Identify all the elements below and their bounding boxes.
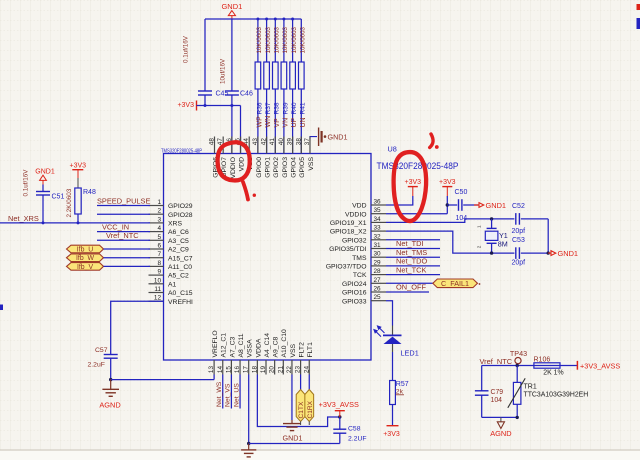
svg-text:21: 21 <box>277 366 284 374</box>
resistor R57 2k <box>390 381 409 405</box>
svg-text:A9_C8: A9_C8 <box>273 336 280 357</box>
junction X1 / crystal <box>490 217 493 220</box>
wire Vref_NTC node <box>482 365 578 367</box>
svg-text:Net_TCK: Net_TCK <box>396 265 426 274</box>
svg-text:GPIO16: GPIO16 <box>342 290 367 297</box>
svg-text:26: 26 <box>374 286 382 293</box>
svg-text:30: 30 <box>374 251 382 258</box>
svg-text:C52: C52 <box>512 203 525 210</box>
wire pin 22 (VSS) to GND1 earth <box>291 375 293 421</box>
port flag Ifb_U (pin 6) <box>67 245 151 253</box>
wire bottom ground to C58 <box>249 443 340 445</box>
capacitor C51 0.1uf/16V <box>23 169 65 223</box>
svg-text:C53: C53 <box>512 237 525 244</box>
svg-text:104: 104 <box>491 397 503 404</box>
junction Net_XRS / R48 <box>77 221 80 224</box>
svg-text:VDDIO: VDDIO <box>230 157 237 179</box>
port flag C_FAIL1 (pin 27) <box>386 279 480 288</box>
svg-text:GPIO32: GPIO32 <box>342 237 367 244</box>
port flag C1TX (vertical) <box>296 390 305 426</box>
svg-text:8M: 8M <box>498 239 508 248</box>
wire TR1 bottom / C79 bottom <box>482 416 518 418</box>
annotation red circle around +3V3 <box>394 152 427 221</box>
svg-text:25: 25 <box>374 294 382 301</box>
svg-text:R57: R57 <box>396 381 409 388</box>
svg-text:GPIO5: GPIO5 <box>299 157 306 178</box>
svg-text:2K 1%: 2K 1% <box>543 370 563 377</box>
svg-text:40: 40 <box>278 138 285 146</box>
IC U8 TMS320F280025-48P body <box>164 154 372 361</box>
net label VCC_IN <box>102 222 129 231</box>
svg-text:17: 17 <box>243 366 250 374</box>
svg-text:3: 3 <box>157 216 161 223</box>
svg-text:GPIO2: GPIO2 <box>273 157 280 178</box>
svg-text:20: 20 <box>269 366 276 374</box>
svg-text:C46: C46 <box>240 91 253 98</box>
svg-text:U8: U8 <box>388 145 397 154</box>
svg-text:20pf: 20pf <box>512 259 526 266</box>
pin 8 (A11_C0) left <box>149 260 193 271</box>
svg-text:10uf/16V: 10uf/16V <box>220 58 227 84</box>
svg-text:GND1: GND1 <box>486 201 507 210</box>
svg-text:18: 18 <box>251 366 258 374</box>
svg-text:14: 14 <box>217 366 224 374</box>
junction GND rail / R40 <box>291 18 294 21</box>
svg-text:41: 41 <box>269 138 276 146</box>
pin 38 (GPIO5) top <box>295 137 306 178</box>
svg-text:R106: R106 <box>534 356 551 363</box>
net label Net_TMS <box>386 248 440 257</box>
pin 30 (TMS) right <box>352 251 386 262</box>
svg-text:C50: C50 <box>455 189 468 196</box>
wire pin 34 (GPIO19_X1) to crystal <box>386 219 548 223</box>
svg-text:9: 9 <box>157 269 161 276</box>
svg-text:C1RX: C1RX <box>307 400 314 418</box>
power port GND1 (bar, at pin 37 VSS) <box>310 128 347 147</box>
svg-text:Vref_NTC: Vref_NTC <box>480 357 513 366</box>
svg-text:VREFHI: VREFHI <box>168 299 193 306</box>
svg-text:28: 28 <box>374 268 382 275</box>
svg-text:A11_C0: A11_C0 <box>168 264 192 271</box>
svg-text:GND1: GND1 <box>283 434 303 443</box>
svg-text:22: 22 <box>286 366 293 374</box>
resistor R40 10K/0603 (net UP) <box>290 19 298 154</box>
svg-text:FLT1: FLT1 <box>307 342 314 358</box>
pin 39 (GPIO4) top <box>287 137 298 178</box>
svg-text:TMS320F280025-48P: TMS320F280025-48P <box>161 148 203 154</box>
wire pin 32 (GPIO32) <box>386 239 440 241</box>
svg-text:XRS: XRS <box>168 221 182 228</box>
ground AGND (earth, left) <box>99 379 120 409</box>
svg-text:GPIO4: GPIO4 <box>291 157 298 178</box>
svg-text:Net_VS: Net_VS <box>225 383 232 407</box>
svg-text:GND1: GND1 <box>35 169 55 176</box>
svg-text:GPIO3: GPIO3 <box>282 157 289 178</box>
annotation red J mark <box>430 134 439 149</box>
svg-text:C_FAIL1: C_FAIL1 <box>441 279 469 288</box>
svg-text:A8_C11: A8_C11 <box>238 333 245 357</box>
svg-text:GND1: GND1 <box>558 249 579 258</box>
svg-text:GPIO18_X2: GPIO18_X2 <box>330 229 367 236</box>
svg-text:37: 37 <box>304 138 311 146</box>
pin 25 (GPIO33) right <box>342 294 386 305</box>
resistor R39 10K/0603 (net VN) <box>281 19 289 154</box>
capacitor C45 0.1uf/16V <box>183 19 229 106</box>
pin 34 (GPIO19_X1) right <box>330 216 386 227</box>
svg-text:2: 2 <box>477 245 482 248</box>
net label Vref_NTC (right) <box>480 357 513 366</box>
pin 43 (GPIO0) top <box>252 137 263 178</box>
svg-text:A3_C5: A3_C5 <box>168 238 189 245</box>
svg-text:VDDIO: VDDIO <box>345 211 367 218</box>
test point TP43 <box>510 349 527 364</box>
power port +3V3 (left) <box>70 162 87 178</box>
power port +3V3 (decoupling rail) <box>177 101 196 111</box>
port flag Ifb_W (pin 7) <box>67 254 151 262</box>
port flag C1RX (vertical) <box>305 390 314 426</box>
svg-text:6: 6 <box>157 243 161 250</box>
svg-text:48: 48 <box>209 138 216 146</box>
net label SPEED_PULSE <box>97 197 150 206</box>
pin 35 (VDDIO) right <box>345 207 386 218</box>
pin 10 (A1) left <box>149 277 177 288</box>
svg-text:A0_C15: A0_C15 <box>168 290 193 297</box>
net label ON_OFF (pin 26) <box>386 283 429 292</box>
capacitor C79 104 <box>475 366 503 418</box>
svg-text:8: 8 <box>157 260 161 267</box>
pin 23 (FLT2) bottom <box>295 342 306 375</box>
power port +3V3 (pin 36) - circled in red <box>405 179 422 196</box>
crystal Y1 8M <box>477 219 508 253</box>
net label Net_US on pin 16 <box>233 375 240 409</box>
pin 33 (GPIO18_X2) right <box>330 225 386 236</box>
clipped wire fragment (left edge) <box>0 305 3 311</box>
pin 1 (GPIO29) left <box>149 199 193 210</box>
pin 4 (A6_C6) left <box>149 225 190 236</box>
wire pin 36 (VDD) to +3V3 <box>386 196 413 205</box>
svg-text:0.1uf/16V: 0.1uf/16V <box>23 169 30 197</box>
IC type label TMS320F280025-48P (large) <box>377 161 459 171</box>
svg-text:TMS320F280025-48P: TMS320F280025-48P <box>377 161 459 171</box>
svg-text:VDD: VDD <box>238 157 245 171</box>
svg-text:23: 23 <box>295 366 302 374</box>
svg-text:2.2uF: 2.2uF <box>88 362 105 369</box>
pin 32 (GPIO32) right <box>342 233 386 244</box>
pin 9 (A5_C2) left <box>149 269 190 280</box>
svg-text:Net_TDO: Net_TDO <box>396 257 427 266</box>
svg-text:R40: R40 <box>291 102 298 114</box>
wire LED1 to R57 <box>392 344 394 381</box>
svg-text:C57: C57 <box>95 347 108 354</box>
junction +3V3_AVSS node <box>338 415 341 418</box>
power port GND1 (top) <box>221 2 242 19</box>
svg-text:VREFLO: VREFLO <box>212 330 219 357</box>
pin 19 (A4_C14) bottom <box>260 333 271 375</box>
svg-text:A15_C7: A15_C7 <box>168 255 193 262</box>
power port +3V3_AVSS (right) <box>577 361 620 371</box>
svg-text:GPIO33: GPIO33 <box>342 298 367 305</box>
svg-text:VN: VN <box>283 118 290 128</box>
net label Net_TDO <box>386 257 440 266</box>
svg-text:WN: WN <box>265 116 272 128</box>
svg-text:VDD: VDD <box>352 203 366 210</box>
junction GND rail / R38 <box>274 18 277 21</box>
svg-text:A2_C9: A2_C9 <box>168 247 189 254</box>
svg-text:TP43: TP43 <box>510 349 527 358</box>
svg-text:10K/0603: 10K/0603 <box>300 26 307 53</box>
pin 24 (FLT1) bottom <box>303 342 314 375</box>
svg-text:Net_XRS: Net_XRS <box>8 214 39 223</box>
wire Vref_NTC to pin 5 <box>97 239 150 241</box>
svg-text:39: 39 <box>287 138 294 146</box>
resistor R106 2K 1% <box>534 356 564 376</box>
resistor R37 10K/0603 (net WN) <box>264 19 272 154</box>
pin 46 (VDDIO) top <box>226 137 237 179</box>
svg-text:R38: R38 <box>274 102 281 114</box>
svg-text:Net_WS: Net_WS <box>216 381 223 407</box>
svg-text:WP: WP <box>257 116 264 128</box>
svg-text:GPIO1: GPIO1 <box>264 157 271 178</box>
wire SPEED_PULSE to pin 1 <box>97 205 150 207</box>
pin 14 (A12_C1) bottom <box>217 333 228 375</box>
IC type label (small, top-left) <box>161 148 203 154</box>
pin 11 (A0_C15) left <box>149 286 193 297</box>
pin 45 (VDD) top <box>235 137 246 172</box>
svg-text:UN: UN <box>300 117 307 127</box>
power port GND1 (arrow, at C50) <box>474 201 506 210</box>
wire R57 to +3V3 <box>392 405 394 426</box>
svg-text:GPIO29: GPIO29 <box>168 203 193 210</box>
wire pin 12 (VREFHI) to C57 <box>111 301 164 354</box>
svg-text:FLT2: FLT2 <box>299 342 306 358</box>
svg-text:13: 13 <box>208 366 215 374</box>
wire pin 17 (VSSA) to bottom ground <box>248 375 250 444</box>
svg-text:2: 2 <box>157 208 161 215</box>
svg-text:GPIO28: GPIO28 <box>168 212 193 219</box>
svg-text:A10_C10: A10_C10 <box>281 329 288 358</box>
svg-text:33: 33 <box>374 225 382 232</box>
net label Net_VS on pin 15 <box>225 375 232 409</box>
pin 2 (GPIO28) left <box>149 208 193 219</box>
capacitor C53 20pf <box>512 237 526 266</box>
svg-text:Ifb_U: Ifb_U <box>77 247 93 254</box>
svg-text:VCC_IN: VCC_IN <box>102 222 129 231</box>
pin 41 (GPIO2) top <box>269 137 280 178</box>
capacitor C50 104 <box>447 189 478 222</box>
pin 27 (GPIO24) right <box>342 277 386 288</box>
pin 29 (GPIO37/TDO) right <box>326 259 386 270</box>
svg-text:+3V3_AVSS: +3V3_AVSS <box>319 400 359 409</box>
net label Net_TCK <box>386 265 440 274</box>
power port +3V3_AVSS (middle) <box>319 400 359 417</box>
wire +3V3 to pin 46 (VDDIO) <box>231 106 233 154</box>
svg-text:GPIO19_X1: GPIO19_X1 <box>330 220 367 227</box>
svg-text:R48: R48 <box>83 189 96 196</box>
resistor R41 10K/0603 (net UN) <box>299 19 307 154</box>
svg-text:AGND: AGND <box>99 401 120 410</box>
capacitor C46 10uf/16V <box>220 19 253 106</box>
svg-text:R36: R36 <box>256 102 263 114</box>
pin 47 (GPIO7) top <box>217 137 228 178</box>
junction C57 / VREFLO / AGND <box>109 378 112 381</box>
pin 16 (A8_C11) bottom <box>234 333 245 374</box>
thermistor TR1 TTC3A103G39H2EH <box>508 366 588 418</box>
svg-text:LED1: LED1 <box>401 348 419 357</box>
net label Net_XRS <box>8 214 39 223</box>
wire VCC_IN to pin 4 <box>97 231 150 233</box>
svg-text:43: 43 <box>252 138 259 146</box>
svg-text:2.2K/0603: 2.2K/0603 <box>66 188 73 217</box>
svg-text:A5_C2: A5_C2 <box>168 273 189 280</box>
svg-text:0.1uf/16V: 0.1uf/16V <box>183 35 190 63</box>
pin 13 (VREFLO) bottom <box>208 330 219 374</box>
svg-text:A12_C1: A12_C1 <box>221 333 228 358</box>
power port GND1 (arrow, at crystal) <box>548 249 578 258</box>
wire to pin 2 (GPIO28) <box>97 213 150 215</box>
designator U8 <box>388 145 397 154</box>
svg-text:29: 29 <box>374 259 382 266</box>
svg-text:GND1: GND1 <box>221 2 242 11</box>
svg-text:R39: R39 <box>282 102 289 114</box>
wire crystal-cap ground return <box>547 219 549 253</box>
svg-text:Net_TDI: Net_TDI <box>396 239 424 248</box>
svg-text:TCK: TCK <box>353 272 367 279</box>
resistor R38 10K/0603 (net VP) <box>273 19 281 154</box>
svg-text:42: 42 <box>261 138 268 146</box>
svg-text:15: 15 <box>225 366 232 374</box>
svg-text:36: 36 <box>374 199 382 206</box>
clipped fragments (top right corner) <box>637 4 640 29</box>
svg-text:16: 16 <box>234 366 241 374</box>
svg-text:10K/0603: 10K/0603 <box>291 26 298 53</box>
svg-text:GPIO37/TDO: GPIO37/TDO <box>326 264 367 271</box>
svg-text:GPIO0: GPIO0 <box>256 157 263 178</box>
svg-text:34: 34 <box>374 216 382 223</box>
svg-text:ON_OFF: ON_OFF <box>396 283 426 292</box>
pin 18 (VDDA) bottom <box>251 338 262 374</box>
junction Net_XRS / C51 <box>42 221 45 224</box>
wire GND rail (top) <box>205 18 301 20</box>
svg-text:1: 1 <box>477 225 482 228</box>
svg-text:AGND: AGND <box>490 429 511 438</box>
resistor R36 10K/0603 (net WP) <box>255 19 263 154</box>
junction GND rail / R36 <box>256 18 259 21</box>
svg-text:+3V3: +3V3 <box>70 162 87 169</box>
svg-text:10K/0603: 10K/0603 <box>256 26 263 53</box>
junction on +3V3 rail at C46 <box>230 104 233 107</box>
junction X2 / crystal <box>490 251 493 254</box>
svg-text:7: 7 <box>157 251 161 258</box>
svg-text:10: 10 <box>154 277 162 284</box>
svg-text:VP: VP <box>274 118 281 128</box>
svg-text:A1: A1 <box>168 281 177 288</box>
capacitor C58 2.2UF <box>333 417 366 443</box>
svg-text:GND1: GND1 <box>328 133 348 142</box>
svg-text:Ifb_W: Ifb_W <box>76 255 94 262</box>
svg-text:Net_US: Net_US <box>233 383 240 407</box>
wire pin 18 (VDDA) to +3V3_AVSS node <box>257 375 339 427</box>
LED LED1 <box>373 325 419 357</box>
svg-text:C51: C51 <box>52 194 65 201</box>
pin 40 (GPIO3) top <box>278 137 289 178</box>
net label Net_TDI <box>386 239 440 248</box>
pin 5 (A3_C5) left <box>149 234 190 245</box>
svg-text:GPIO35/TDI: GPIO35/TDI <box>329 246 367 253</box>
junction +3V3 / C50 node <box>446 203 449 206</box>
svg-text:19: 19 <box>260 366 267 374</box>
svg-text:TMS: TMS <box>352 255 367 262</box>
junction TP43 / TR1 <box>516 364 519 367</box>
svg-text:27: 27 <box>374 277 382 284</box>
svg-text:C79: C79 <box>491 389 504 396</box>
net label Net_WS on pin 14 <box>216 375 223 409</box>
wire Net_XRS to pin 3 (XRS) <box>0 222 150 224</box>
svg-text:10K/0603: 10K/0603 <box>274 26 281 53</box>
svg-text:Ifb_V: Ifb_V <box>77 264 93 271</box>
pin 7 (A15_C7) left <box>149 251 193 262</box>
junction on +3V3 rail at C45 <box>204 104 207 107</box>
junction ground return <box>547 251 550 254</box>
power port +3V3 (pin 35 node) <box>439 179 456 196</box>
wire +3V3 to pin 45 (VDD) <box>240 106 242 154</box>
junction GND rail / R39 <box>282 18 285 21</box>
svg-text:A6_C6: A6_C6 <box>168 229 189 236</box>
svg-text:C58: C58 <box>348 426 361 433</box>
wire pin 25 (GPIO33) to LED1 <box>386 301 393 326</box>
svg-text:11: 11 <box>154 286 161 293</box>
svg-text:C1TX: C1TX <box>298 401 305 418</box>
svg-text:2.2UF: 2.2UF <box>348 436 367 443</box>
svg-text:R41: R41 <box>300 102 307 114</box>
svg-text:TTC3A103G39H2EH: TTC3A103G39H2EH <box>524 391 589 398</box>
pin 37 (VSS) top <box>304 137 315 171</box>
sheet bottom edge <box>0 450 640 460</box>
svg-text:TR1: TR1 <box>524 384 537 391</box>
pin 28 (TCK) right <box>353 268 386 279</box>
svg-text:VDDA: VDDA <box>255 338 262 357</box>
pin 36 (VDD) right <box>352 199 386 210</box>
svg-text:VSS: VSS <box>308 157 315 171</box>
junction GND rail / R37 <box>265 18 268 21</box>
pin 22 (VSS) bottom <box>286 343 297 374</box>
pin 3 (XRS) left <box>149 216 183 227</box>
svg-text:10K/0603: 10K/0603 <box>282 26 289 53</box>
svg-text:UP: UP <box>291 117 298 127</box>
junction bottom ground <box>247 442 250 445</box>
svg-text:4: 4 <box>157 225 161 232</box>
pin 15 (A7_C3) bottom <box>225 336 236 374</box>
ground GND1 (earth, bottom middle) <box>283 420 303 443</box>
svg-text:1: 1 <box>157 199 161 206</box>
annotation red circle around VDDIO/VDD pins <box>218 142 250 180</box>
svg-text:+3V3: +3V3 <box>405 179 422 186</box>
port flag Ifb_V (pin 8) <box>67 263 151 271</box>
svg-text:VSS: VSS <box>290 343 297 357</box>
pin 6 (A2_C9) left <box>149 243 190 254</box>
wire pin 33 (GPIO18_X2) to crystal bottom <box>386 231 548 253</box>
svg-text:Net_TMS: Net_TMS <box>396 248 427 257</box>
pin 44 (VSS) top <box>243 137 254 171</box>
svg-text:20pf: 20pf <box>512 228 526 235</box>
svg-text:GPIO24: GPIO24 <box>342 281 367 288</box>
svg-text:SPEED_PULSE: SPEED_PULSE <box>97 197 150 206</box>
svg-text:R37: R37 <box>265 102 272 114</box>
svg-text:+3V3: +3V3 <box>177 102 194 109</box>
svg-text:31: 31 <box>374 242 382 249</box>
pin 31 (GPIO35/TDI) right <box>329 242 386 253</box>
wire pin 35 (VDDIO) up to +3V3/C50 node <box>386 196 447 214</box>
junction TR1 bottom <box>516 416 519 419</box>
